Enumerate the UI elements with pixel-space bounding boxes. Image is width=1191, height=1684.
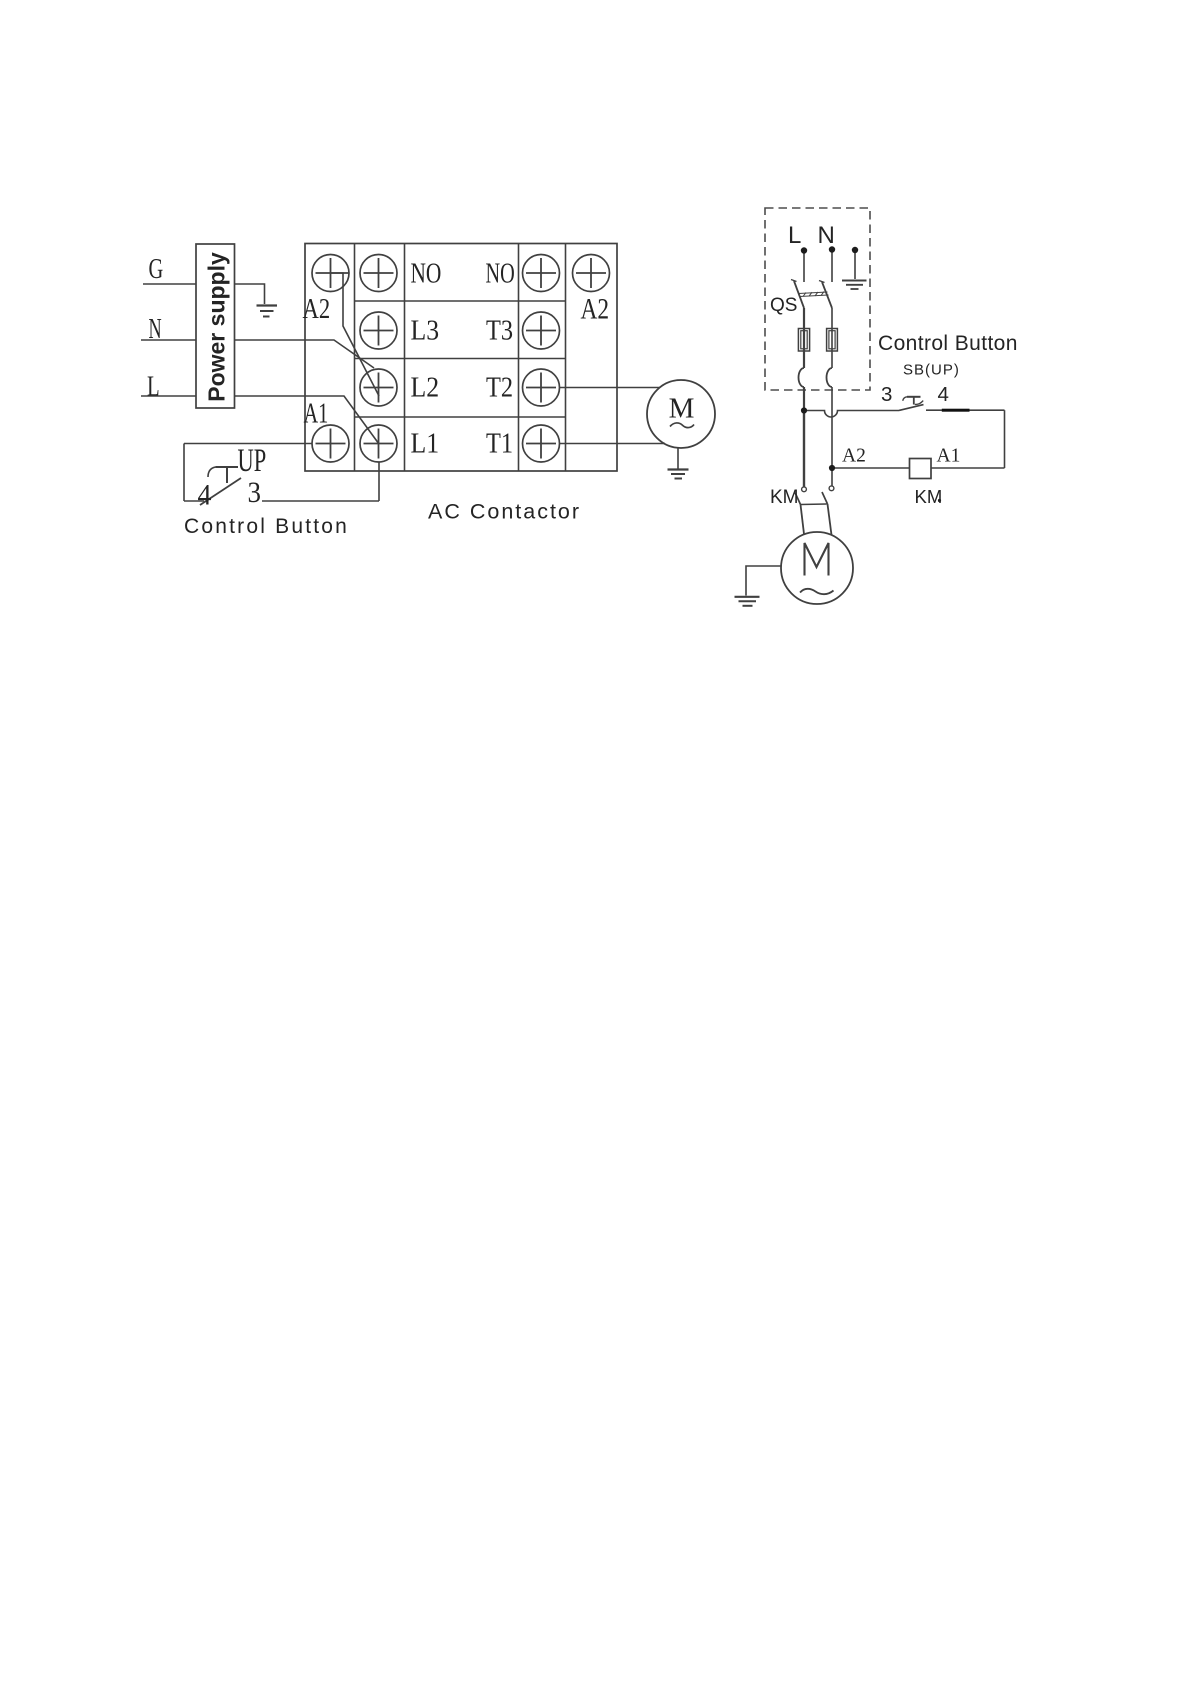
svg-text:4: 4	[938, 383, 949, 406]
svg-text:N: N	[818, 222, 835, 249]
svg-text:QS: QS	[770, 295, 797, 316]
svg-text:L3: L3	[411, 315, 440, 346]
svg-text:SB(UP): SB(UP)	[903, 362, 960, 379]
svg-text:KM: KM	[770, 487, 799, 508]
svg-text:T2: T2	[486, 372, 513, 403]
svg-text:NO: NO	[486, 258, 515, 289]
svg-text:N: N	[149, 314, 162, 345]
svg-text:L2: L2	[411, 372, 440, 403]
svg-text:UP: UP	[238, 443, 267, 479]
svg-text:A2: A2	[842, 446, 866, 467]
svg-text:A1: A1	[937, 446, 961, 467]
svg-text:AC Contactor: AC Contactor	[428, 500, 581, 524]
svg-text:A2: A2	[303, 292, 331, 324]
svg-text:NO: NO	[411, 259, 442, 290]
svg-text:T3: T3	[486, 315, 513, 346]
svg-text:3: 3	[881, 383, 892, 406]
svg-text:3: 3	[248, 477, 261, 510]
svg-text:M: M	[669, 393, 695, 425]
svg-text:T1: T1	[486, 428, 513, 459]
svg-text:A2: A2	[581, 292, 610, 325]
svg-text:KM: KM	[915, 486, 943, 507]
svg-text:Control Button: Control Button	[878, 332, 1018, 355]
svg-text:L1: L1	[411, 428, 440, 459]
svg-text:L: L	[147, 372, 160, 403]
svg-text:G: G	[149, 254, 164, 285]
svg-text:L: L	[788, 222, 801, 249]
svg-text:Control Button: Control Button	[184, 515, 349, 538]
svg-text:A1: A1	[304, 398, 329, 429]
svg-text:4: 4	[198, 479, 212, 512]
svg-text:Power supply: Power supply	[204, 252, 230, 402]
